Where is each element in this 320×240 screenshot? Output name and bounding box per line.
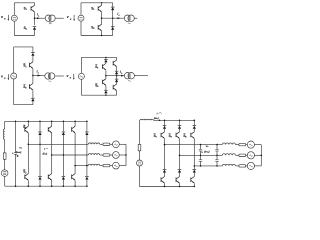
transistor S2 circuit B bbox=[98, 24, 102, 31]
wire leg1 upper CSI bbox=[164, 129, 166, 132]
diode bottom leg1 CSI bbox=[163, 170, 167, 173]
resistor phase a VSI bbox=[103, 143, 110, 145]
svg-text:(vdc): (vdc) bbox=[16, 150, 22, 154]
diode legB lower circuit D bbox=[115, 79, 119, 82]
wire phase c to bus VSI bbox=[119, 165, 126, 167]
node output circuit A bbox=[34, 17, 36, 19]
node bottom leg6 VSI bbox=[86, 185, 88, 187]
current arrow iL circuit B bbox=[118, 17, 121, 19]
transistor top leg1 CSI bbox=[161, 132, 165, 139]
wire leg1 to tap VSI bbox=[27, 133, 29, 144]
node after choke CSI bbox=[159, 120, 161, 122]
transistor bottom leg3 VSI bbox=[48, 174, 52, 181]
node top leg2 VSI bbox=[39, 121, 41, 123]
label S1 CSI bbox=[154, 134, 158, 139]
node bottom leg3 CSI bbox=[194, 186, 196, 188]
diode S2 circuit A bbox=[33, 27, 37, 30]
wire right rail upper circuit B bbox=[112, 3, 114, 7]
node bottom leg4 VSI bbox=[63, 185, 65, 187]
wire leg4 to tap VSI bbox=[62, 135, 64, 155]
node top leg1 CSI bbox=[164, 120, 166, 122]
node right rail output circuit B bbox=[112, 17, 114, 19]
node leg1 bottom circuit B bbox=[101, 35, 102, 36]
node top leg4 VSI bbox=[63, 121, 65, 123]
diode top leg3 CSI bbox=[193, 126, 197, 129]
svg-text:s: s bbox=[4, 18, 6, 21]
wire legA lower circuit D bbox=[105, 86, 107, 90]
diode bottom leg4 VSI bbox=[62, 177, 66, 180]
inductor phase b VSI bbox=[88, 154, 99, 155]
wire bottom rail circuit C bbox=[14, 104, 33, 106]
wire leg3 to tap VSI bbox=[51, 133, 53, 155]
svg-text:2: 2 bbox=[25, 172, 27, 174]
wire phase c tap CSI bbox=[194, 165, 222, 167]
wire bottom rail circuit B bbox=[81, 35, 113, 37]
label iL circuit D bbox=[120, 70, 123, 75]
wire left rail upper VSI bbox=[4, 121, 6, 129]
svg-text:i: i bbox=[157, 112, 158, 116]
wire right rail lower circuit A bbox=[34, 30, 36, 36]
svg-text:1: 1 bbox=[97, 68, 99, 70]
svg-text:(iac): (iac) bbox=[43, 152, 48, 156]
node top leg3 CSI bbox=[194, 120, 196, 122]
diode legA bottom circuit D bbox=[104, 90, 108, 93]
label idc CSI bbox=[154, 112, 162, 121]
wire leg3 bottom CSI bbox=[193, 183, 195, 186]
wire phase b to source CSI bbox=[246, 154, 248, 156]
node neutral CSI bbox=[261, 155, 263, 157]
wire dc-link upper VSI bbox=[15, 121, 17, 152]
wire leg3 top CSI bbox=[193, 120, 195, 125]
resistor phase a CSI bbox=[239, 143, 246, 145]
wire leg1 to tap CSI bbox=[164, 139, 166, 145]
wire cap column 1 upper CSI bbox=[200, 145, 202, 150]
transistor top leg3 CSI bbox=[191, 132, 195, 139]
svg-text:vs: vs bbox=[19, 146, 22, 149]
node phase c leg CSI bbox=[194, 165, 196, 167]
wire legB top circuit D bbox=[116, 57, 118, 60]
machine load circuit D bbox=[124, 73, 134, 82]
wire phase a mid VSI bbox=[100, 143, 103, 145]
voltage source vs circuit D bbox=[78, 73, 84, 79]
ac source phase a CSI bbox=[247, 141, 254, 148]
wire leg2 tap-down CSI bbox=[179, 155, 181, 169]
svg-text:3: 3 bbox=[171, 137, 173, 139]
machine load circuit A bbox=[45, 15, 55, 24]
wire top rail circuit A bbox=[14, 2, 34, 4]
transistor S1 circuit D bbox=[102, 63, 106, 70]
wire phase c to source CSI bbox=[246, 165, 248, 167]
transistor S2 circuit D bbox=[102, 79, 106, 86]
ac source phase b VSI bbox=[113, 152, 120, 159]
resistor source CSI bbox=[138, 144, 141, 150]
node phase c right VSI bbox=[86, 165, 88, 167]
wire left rail circuit A bbox=[13, 3, 15, 36]
resistor source VSI bbox=[3, 153, 6, 159]
node top leg5 VSI bbox=[74, 121, 76, 123]
inductor source VSI bbox=[3, 129, 4, 139]
node phase a left VSI bbox=[28, 144, 30, 146]
wire left rail mid CSI bbox=[139, 151, 141, 160]
node phase b leg CSI bbox=[179, 155, 181, 157]
diode bottom leg2 VSI bbox=[38, 177, 42, 180]
wire leg5 bottom VSI bbox=[74, 180, 76, 186]
wire bottom rail circuit D bbox=[81, 94, 116, 96]
svg-text:2: 2 bbox=[97, 86, 99, 88]
wire leg1 upper VSI bbox=[27, 121, 29, 126]
wire leg1 upper circuit B bbox=[101, 3, 103, 6]
machine load circuit C bbox=[45, 73, 55, 82]
wire bottom rail VSI bbox=[5, 185, 87, 187]
wire leg3 upper VSI bbox=[51, 121, 53, 126]
node bottom leg2 VSI bbox=[39, 185, 41, 187]
wire top rail right CSI bbox=[153, 119, 194, 121]
transistor top leg2 CSI bbox=[176, 132, 180, 139]
node output circuit C bbox=[32, 75, 34, 77]
wire leg6 to tap VSI bbox=[86, 135, 88, 166]
wire phase b mid CSI bbox=[235, 154, 238, 156]
wire right rail lower circuit B bbox=[112, 30, 114, 36]
wire right rail mid circuit C bbox=[32, 69, 34, 84]
wire cap column 1 mid CSI bbox=[200, 151, 202, 160]
current arrow iL circuit A bbox=[37, 17, 40, 19]
label vs circuit D bbox=[67, 74, 75, 80]
wire leg5 tap-down VSI bbox=[74, 166, 76, 174]
label S1 circuit C bbox=[23, 63, 27, 68]
wire legB lower circuit D bbox=[116, 82, 118, 84]
svg-text:vc: vc bbox=[206, 145, 209, 148]
wire leg6 tap-down VSI bbox=[86, 166, 88, 177]
resistor phase b VSI bbox=[103, 154, 110, 156]
dc source CSI bbox=[137, 160, 143, 166]
label iac VSI bbox=[43, 147, 48, 156]
node top leg3 VSI bbox=[51, 121, 53, 123]
inductor phase c CSI bbox=[222, 164, 235, 166]
transistor bottom leg5 VSI bbox=[72, 174, 76, 181]
label S2 VSI bbox=[23, 170, 27, 175]
transistor bottom leg1 CSI bbox=[161, 177, 165, 184]
wire legB bottom circuit D bbox=[116, 91, 118, 95]
label iL circuit C bbox=[37, 70, 40, 75]
node top leg1 VSI bbox=[28, 121, 30, 123]
wire legA top circuit D bbox=[105, 57, 107, 59]
dc source VSI bbox=[1, 170, 8, 177]
wire leg2 upper CSI bbox=[179, 129, 181, 132]
node leg1 top circuit B bbox=[101, 2, 102, 3]
label iL circuit B bbox=[117, 12, 120, 17]
wire neutral bus CSI bbox=[260, 145, 262, 166]
inductor phase c VSI bbox=[88, 164, 99, 165]
transistor bottom leg2 CSI bbox=[176, 177, 180, 184]
svg-text:s: s bbox=[4, 77, 6, 80]
svg-text:2: 2 bbox=[26, 29, 28, 31]
diode top leg4 VSI bbox=[62, 132, 66, 135]
wire left rail bottom VSI bbox=[4, 176, 6, 186]
wire phase b tap CSI bbox=[180, 154, 223, 156]
wire leg1 tap-down VSI bbox=[27, 144, 29, 173]
current arrow iL circuit C bbox=[38, 75, 41, 77]
node cap col1 y144 CSI bbox=[200, 144, 202, 146]
transistor top leg3 VSI bbox=[48, 126, 52, 133]
node phase c left VSI bbox=[74, 165, 76, 167]
svg-text:1: 1 bbox=[25, 66, 27, 68]
wire leg4 tap-down VSI bbox=[62, 155, 64, 176]
wire legB mid circuit D bbox=[116, 74, 118, 79]
svg-text:L: L bbox=[121, 73, 123, 75]
wire top rail circuit B bbox=[81, 2, 113, 4]
ac source phase b CSI bbox=[247, 152, 254, 159]
wire output circuit A bbox=[35, 17, 46, 19]
wire leg4 upper VSI bbox=[62, 121, 64, 131]
transistor top leg1 VSI bbox=[25, 126, 29, 133]
diode bottom leg2 CSI bbox=[178, 170, 182, 173]
wire cap column 1 lower CSI bbox=[200, 161, 202, 166]
node bottom leg5 VSI bbox=[74, 185, 76, 187]
node phase b left VSI bbox=[51, 154, 53, 156]
wire dc-link lower VSI bbox=[15, 154, 17, 186]
wire left rail circuit C bbox=[13, 47, 15, 105]
resistor phase b CSI bbox=[239, 154, 246, 156]
wire phase c tap VSI bbox=[75, 165, 88, 167]
wire top rail VSI bbox=[5, 120, 87, 122]
svg-text:L: L bbox=[38, 72, 40, 74]
wire legA bottom circuit D bbox=[105, 93, 107, 95]
diode D2 circuit B bbox=[111, 27, 115, 30]
node cap col1 y155 CSI bbox=[200, 155, 202, 157]
node bottom leg1 CSI bbox=[164, 186, 166, 188]
wire neutral bus VSI bbox=[125, 144, 127, 165]
wire machine right circuit C bbox=[55, 75, 64, 77]
node dc-link bottom VSI bbox=[15, 185, 17, 187]
node leg1 output circuit B bbox=[101, 17, 103, 19]
transistor S1 circuit B bbox=[98, 5, 102, 12]
node bottom leg3 VSI bbox=[51, 185, 53, 187]
wire top rail circuit D bbox=[81, 56, 116, 58]
label vs circuit A bbox=[1, 15, 9, 21]
label S1 circuit B bbox=[91, 6, 95, 11]
node top leg2 CSI bbox=[179, 120, 181, 122]
capacitor 2 CSI bbox=[199, 160, 202, 162]
node cap col2 y155 CSI bbox=[216, 155, 218, 157]
wire leg1 mid circuit B bbox=[101, 12, 103, 24]
node phase a right VSI bbox=[39, 144, 41, 146]
wire phase b to bus VSI bbox=[119, 154, 126, 156]
diode bottom circuit C bbox=[31, 98, 35, 101]
svg-text:s: s bbox=[70, 77, 72, 80]
wire right rail mid circuit B bbox=[112, 10, 114, 26]
wire leg6 upper VSI bbox=[86, 121, 88, 131]
capacitor 3 CSI bbox=[215, 149, 218, 151]
node legA top circuit D bbox=[105, 57, 106, 58]
wire leg2 tap-down VSI bbox=[39, 144, 41, 176]
diode top leg1 CSI bbox=[163, 126, 167, 129]
wire leg3 upper CSI bbox=[193, 129, 195, 132]
capacitor dc-link VSI bbox=[14, 153, 17, 155]
wire right rail lower circuit C bbox=[32, 90, 34, 98]
wire phase c mid CSI bbox=[235, 165, 238, 167]
node legB output circuit D bbox=[116, 75, 118, 77]
node bottom leg2 CSI bbox=[179, 186, 181, 188]
svg-text:(idc): (idc) bbox=[154, 116, 159, 120]
node bottom leg1 VSI bbox=[28, 185, 30, 187]
wire leg5 upper VSI bbox=[74, 121, 76, 126]
node cap col2 y144 CSI bbox=[216, 144, 218, 146]
inductor phase a CSI bbox=[222, 143, 235, 145]
label S2 circuit D bbox=[95, 83, 99, 88]
capacitor 1 CSI bbox=[199, 149, 202, 151]
wire phase a to source CSI bbox=[246, 144, 248, 146]
wire phase b tap VSI bbox=[52, 154, 89, 156]
wire machine right circuit A bbox=[55, 17, 64, 19]
inductor phase a VSI bbox=[88, 143, 99, 144]
transistor S2 circuit C bbox=[29, 83, 33, 90]
transistor S1 circuit C bbox=[29, 62, 33, 69]
wire leg6 bottom VSI bbox=[86, 180, 88, 187]
wire leg5 to tap VSI bbox=[74, 133, 76, 166]
label vc CSI bbox=[201, 145, 209, 154]
diode D1 circuit B bbox=[111, 7, 115, 10]
voltage source vs circuit C bbox=[11, 73, 17, 79]
node phase a leg CSI bbox=[164, 144, 166, 146]
wire right rail top circuit C bbox=[32, 47, 34, 52]
svg-text:1: 1 bbox=[156, 137, 158, 139]
diode top leg2 VSI bbox=[38, 132, 42, 135]
transistor bottom leg1 VSI bbox=[25, 174, 29, 181]
wire top rail left CSI bbox=[139, 119, 142, 121]
wire output circuit C bbox=[33, 75, 45, 77]
resistor phase c VSI bbox=[103, 164, 110, 166]
svg-text:L: L bbox=[119, 15, 121, 17]
wire phase a to source VSI bbox=[110, 143, 113, 145]
diode top leg2 CSI bbox=[178, 126, 182, 129]
wire phase a to bus VSI bbox=[119, 143, 126, 145]
wire right rail mid circuit A bbox=[34, 12, 36, 25]
label S5 CSI bbox=[183, 134, 187, 139]
label vs circuit B bbox=[67, 15, 75, 21]
transistor S1 circuit A bbox=[31, 5, 35, 12]
resistor phase c CSI bbox=[239, 165, 246, 167]
diode legA top circuit D bbox=[104, 59, 108, 62]
label S3 CSI bbox=[169, 134, 173, 139]
svg-text:s: s bbox=[70, 18, 72, 21]
machine load circuit B bbox=[124, 15, 134, 24]
wire legA mid circuit D bbox=[105, 70, 107, 79]
wire leg1 tap-down CSI bbox=[164, 145, 166, 170]
label vs dc-link VSI bbox=[12, 146, 22, 156]
wire phase b to source VSI bbox=[110, 154, 113, 156]
capacitor 4 CSI bbox=[215, 160, 218, 162]
label S2 circuit A bbox=[24, 26, 28, 31]
wire output circuit B bbox=[102, 17, 125, 19]
wire cap column 2 upper CSI bbox=[216, 145, 218, 150]
wire leg3 tap-down VSI bbox=[51, 155, 53, 174]
wire left rail lower CSI bbox=[139, 166, 141, 187]
label S1 circuit A bbox=[24, 6, 28, 11]
wire machine right circuit B bbox=[134, 17, 137, 19]
diode bottom leg6 VSI bbox=[85, 177, 89, 180]
wire left rail mid VSI bbox=[4, 139, 6, 153]
wire right rail upper circuit A bbox=[34, 3, 36, 6]
svg-text:1: 1 bbox=[26, 9, 28, 11]
wire leg2 bottom VSI bbox=[39, 180, 41, 187]
wire top rail circuit C bbox=[14, 46, 33, 48]
wire left rail circuit D bbox=[80, 57, 82, 95]
wire phase a tap VSI bbox=[28, 143, 88, 145]
svg-text:i: i bbox=[44, 147, 45, 151]
node phase b right VSI bbox=[63, 154, 65, 156]
wire leg2 top CSI bbox=[179, 120, 181, 125]
wire left rail lower VSI bbox=[4, 159, 6, 170]
node legA output circuit D bbox=[105, 75, 107, 77]
wire leg4 bottom VSI bbox=[62, 180, 64, 187]
svg-text:2: 2 bbox=[25, 88, 27, 90]
wire leg3 tap-down CSI bbox=[193, 166, 195, 169]
wire bottom rail circuit A bbox=[14, 35, 34, 37]
diode top leg6 VSI bbox=[85, 132, 89, 135]
wire leg1 bottom VSI bbox=[27, 180, 29, 186]
wire leg2 to tap VSI bbox=[39, 135, 41, 144]
svg-text:+: + bbox=[12, 152, 14, 155]
wire phase c mid VSI bbox=[100, 165, 103, 167]
wire output circuit D bbox=[106, 75, 125, 77]
wire leg1 lower CSI bbox=[164, 173, 166, 177]
wire leg3 to tap CSI bbox=[193, 139, 195, 166]
transistor legB top circuit D bbox=[113, 60, 117, 67]
ac source phase c CSI bbox=[247, 162, 254, 169]
wire bottom rail CSI bbox=[140, 186, 195, 188]
inductor dc choke CSI bbox=[140, 119, 153, 120]
label S1 VSI bbox=[23, 125, 27, 130]
wire phase a tap CSI bbox=[165, 144, 223, 146]
voltage source Vs circuit A bbox=[11, 15, 17, 21]
svg-text:L: L bbox=[38, 15, 40, 17]
transistor top leg5 VSI bbox=[72, 126, 76, 133]
wire leg2 bottom CSI bbox=[179, 183, 181, 186]
wire phase b mid VSI bbox=[100, 154, 103, 156]
label S1 circuit D bbox=[95, 65, 99, 70]
wire phase b to bus CSI bbox=[255, 154, 262, 156]
diode top circuit C bbox=[31, 53, 35, 56]
label iL circuit A bbox=[37, 13, 40, 18]
wire leg2 to tap CSI bbox=[179, 139, 181, 156]
svg-text:1: 1 bbox=[25, 128, 27, 130]
wire leg3 lower CSI bbox=[193, 173, 195, 177]
wire left rail circuit B bbox=[80, 3, 82, 36]
wire right rail upper circuit C bbox=[32, 56, 34, 62]
node legA bottom circuit D bbox=[105, 95, 106, 96]
node neutral VSI bbox=[125, 154, 127, 156]
current arrow iL circuit D bbox=[121, 75, 124, 77]
transistor bottom leg3 CSI bbox=[191, 177, 195, 184]
svg-text:5: 5 bbox=[185, 137, 187, 139]
wire phase c to source VSI bbox=[110, 165, 113, 167]
label S2 circuit B bbox=[91, 25, 95, 30]
wire leg1 top CSI bbox=[164, 120, 166, 125]
ac source phase c VSI bbox=[113, 162, 120, 169]
svg-text:2: 2 bbox=[93, 28, 95, 30]
node top leg6 VSI bbox=[86, 121, 88, 123]
wire right rail bottom circuit C bbox=[32, 101, 34, 105]
wire legB upper circuit D bbox=[116, 67, 118, 71]
wire left rail upper CSI bbox=[139, 120, 141, 144]
transistor legB bottom circuit D bbox=[113, 84, 117, 91]
node cap col1 y165 CSI bbox=[200, 165, 202, 167]
ac source phase a VSI bbox=[113, 141, 120, 148]
wire phase a to bus CSI bbox=[255, 144, 262, 146]
wire leg3 bottom VSI bbox=[51, 180, 53, 186]
voltage source Vs circuit B bbox=[78, 15, 84, 21]
wire leg1 bottom CSI bbox=[164, 183, 166, 186]
